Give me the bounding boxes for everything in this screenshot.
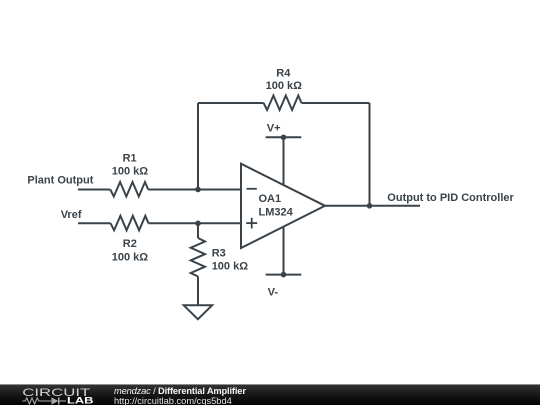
- svg-text:Output to PID Controller: Output to PID Controller: [387, 192, 514, 204]
- resistor R4: [264, 96, 302, 111]
- power V- rail bar: [266, 274, 302, 276]
- power V+ rail bar: [266, 136, 302, 138]
- svg-text:R4: R4: [276, 67, 291, 79]
- svg-text:Vref: Vref: [61, 209, 82, 221]
- svg-text:100 kΩ: 100 kΩ: [266, 80, 303, 92]
- wire: right riser down to output node: [369, 103, 371, 206]
- node: V+ rail connection: [281, 135, 287, 141]
- node: output / feedback junction: [367, 203, 373, 209]
- resistor R3: [191, 238, 205, 277]
- svg-text:R3: R3: [212, 248, 226, 260]
- wire: R1 to op-amp inverting input: [148, 189, 241, 191]
- svg-text:R1: R1: [123, 153, 137, 165]
- wire: R3 to ground: [197, 277, 199, 306]
- CircuitLab logo: [22, 386, 97, 406]
- wire: R2 to op-amp non-inverting input: [149, 222, 242, 224]
- op-amp inverting input minus marker: [247, 188, 257, 190]
- svg-text:LAB: LAB: [67, 396, 94, 406]
- op-amp OA1 triangle: [241, 164, 325, 248]
- node: V- rail connection: [281, 272, 287, 278]
- wire: Vref lead to R2: [78, 222, 111, 224]
- svg-text:100 kΩ: 100 kΩ: [212, 261, 249, 273]
- wire: V- supply drop from op-amp: [283, 227, 285, 275]
- svg-text:Plant Output: Plant Output: [27, 175, 93, 187]
- node: inverting input / feedback junction: [195, 187, 201, 193]
- footer info text: [114, 387, 246, 407]
- footer bar: [0, 384, 540, 405]
- svg-text:V-: V-: [268, 287, 279, 299]
- node: non-inverting input / R3 junction: [195, 221, 201, 227]
- resistor R2: [111, 216, 149, 231]
- resistor R1: [110, 182, 148, 197]
- wire: top rail left segment to R4: [198, 102, 264, 104]
- op-amp non-inverting input plus marker: [246, 218, 257, 229]
- ground: [184, 305, 212, 319]
- wire: Plant Output lead to R1: [78, 189, 110, 191]
- svg-text:V+: V+: [267, 123, 281, 135]
- wire: V+ supply drop into op-amp: [283, 137, 285, 185]
- wire: op-amp output to PID controller: [325, 205, 420, 207]
- svg-text:R2: R2: [123, 238, 137, 250]
- wire: R4 to right riser: [302, 102, 370, 104]
- wire: feedback riser from inverting node: [197, 103, 199, 190]
- wire: non-inverting node down to R3: [197, 223, 199, 238]
- svg-text:OA1: OA1: [259, 193, 282, 205]
- svg-text:100 kΩ: 100 kΩ: [112, 252, 149, 264]
- svg-text:LM324: LM324: [259, 207, 294, 219]
- svg-text:100 kΩ: 100 kΩ: [112, 166, 149, 178]
